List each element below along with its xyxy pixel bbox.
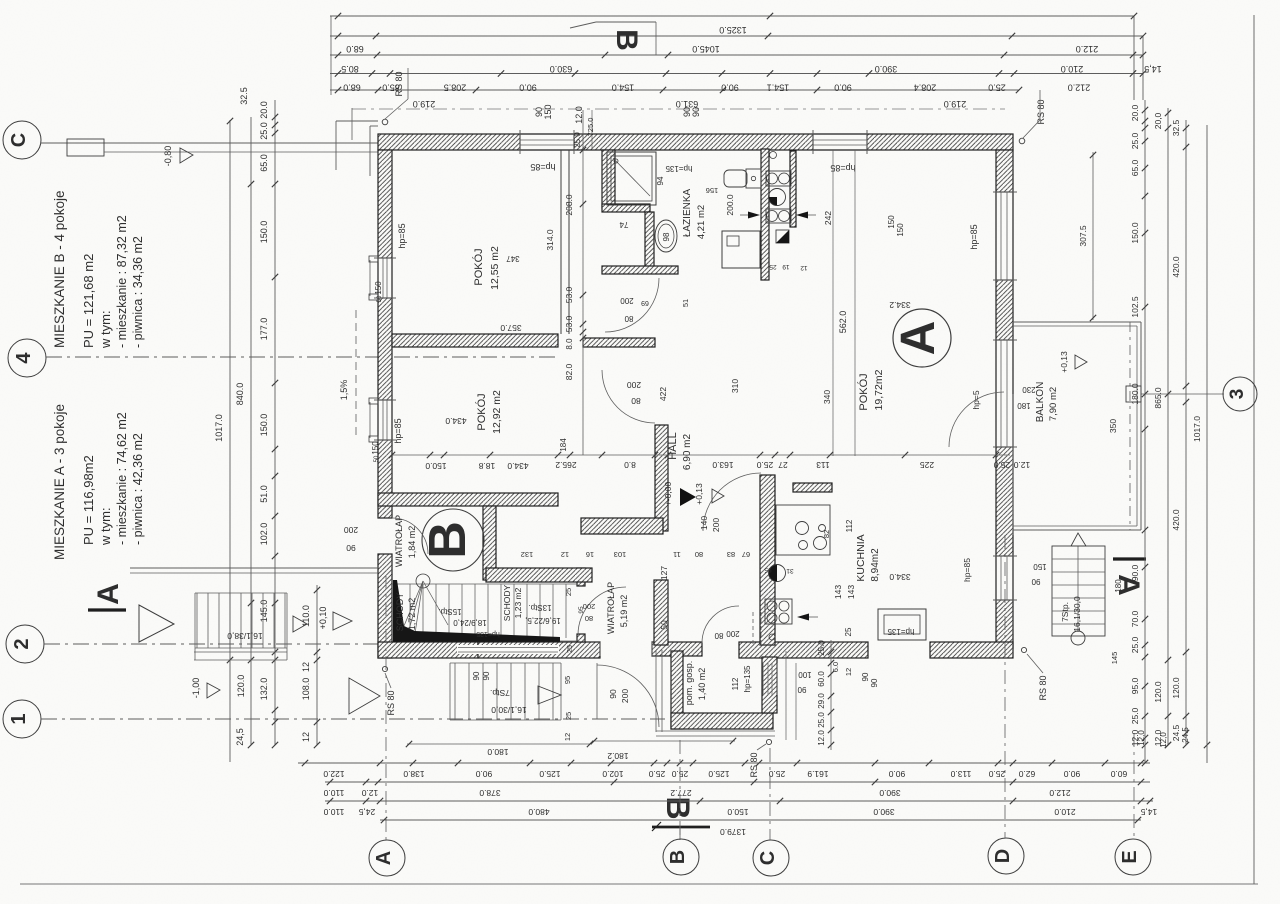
svg-text:20.0: 20.0 [259,101,269,119]
svg-text:60.0: 60.0 [1110,769,1127,779]
svg-text:120.0: 120.0 [1153,681,1163,703]
svg-text:60.0: 60.0 [817,671,826,687]
svg-text:82: 82 [822,530,831,538]
svg-text:154.1: 154.1 [767,83,790,93]
svg-text:200: 200 [711,518,721,532]
svg-text:132: 132 [521,550,534,559]
svg-text:125.0: 125.0 [708,769,730,779]
svg-text:11: 11 [673,550,681,559]
svg-text:150.0: 150.0 [1130,222,1140,244]
svg-text:100: 100 [798,670,812,679]
svg-text:4: 4 [13,352,35,364]
svg-text:POKÓJ: POKÓJ [475,393,488,430]
svg-text:143: 143 [846,585,856,599]
svg-text:154.0: 154.0 [612,83,635,93]
svg-text:83: 83 [727,550,735,559]
svg-text:150: 150 [1033,562,1047,571]
svg-text:12.0: 12.0 [361,788,378,798]
svg-text:16,1/30,0: 16,1/30,0 [1072,596,1082,632]
svg-text:143: 143 [833,585,843,599]
svg-text:hp=135: hp=135 [743,665,752,692]
svg-text:12,92 m2: 12,92 m2 [491,390,503,434]
svg-text:210.0: 210.0 [1061,64,1084,74]
svg-text:112: 112 [731,677,740,690]
svg-text:180.0: 180.0 [487,747,509,757]
svg-text:90.0: 90.0 [1130,564,1140,581]
svg-text:WIATROŁAP: WIATROŁAP [606,582,616,634]
svg-text:E: E [1119,850,1141,863]
svg-text:132.0: 132.0 [259,678,269,701]
svg-text:212.0: 212.0 [1068,83,1091,93]
svg-text:69: 69 [641,299,649,306]
svg-text:103: 103 [614,550,627,559]
svg-text:102.5: 102.5 [1130,296,1140,318]
svg-text:25.0: 25.0 [573,132,582,148]
svg-text:80: 80 [695,550,703,559]
svg-text:12: 12 [561,550,569,559]
svg-text:A: A [892,321,945,356]
svg-text:70.0: 70.0 [1130,610,1140,627]
svg-text:HALL: HALL [667,432,679,460]
svg-text:8.0: 8.0 [565,338,574,350]
svg-text:219.0: 219.0 [413,99,436,109]
svg-text:- mieszkanie : 74,62 m2: - mieszkanie : 74,62 m2 [115,412,129,545]
svg-text:12,0: 12,0 [1153,729,1163,746]
svg-text:25.0: 25.0 [993,460,1010,470]
svg-text:156: 156 [706,186,719,195]
svg-text:127: 127 [659,566,669,580]
svg-text:180: 180 [1017,401,1031,410]
svg-text:25.0: 25.0 [756,460,773,470]
svg-text:120.0: 120.0 [1171,677,1181,699]
svg-text:hp=135: hp=135 [476,630,500,637]
svg-text:1,40 m2: 1,40 m2 [697,668,707,701]
svg-text:357.0: 357.0 [500,323,522,333]
svg-text:RS 80: RS 80 [749,752,759,777]
svg-text:310: 310 [730,379,740,393]
svg-text:112: 112 [845,519,854,532]
svg-text:A: A [373,851,395,865]
svg-text:225: 225 [920,460,934,470]
svg-text:C: C [757,851,779,865]
svg-text:2: 2 [11,638,33,649]
svg-text:307.5: 307.5 [1078,225,1088,247]
svg-text:+0,13: +0,13 [694,483,704,505]
svg-text:865.0: 865.0 [1153,387,1163,409]
svg-text:180.2: 180.2 [607,751,629,761]
svg-text:90.0: 90.0 [721,83,739,93]
svg-text:25.0: 25.0 [817,712,826,728]
svg-text:90: 90 [797,685,806,694]
svg-text:80: 80 [624,314,633,323]
svg-text:12: 12 [563,733,572,741]
svg-text:177.0: 177.0 [259,318,269,341]
svg-text:90: 90 [608,689,618,699]
svg-text:hp=85: hp=85 [393,418,403,443]
svg-text:314.0: 314.0 [545,229,555,251]
svg-text:-0,80: -0,80 [163,146,173,167]
svg-text:422: 422 [658,387,668,401]
svg-text:150: 150 [896,223,905,237]
svg-text:420.0: 420.0 [1171,256,1181,278]
svg-text:8.0: 8.0 [624,460,636,470]
svg-text:+0,13: +0,13 [1059,351,1069,373]
svg-text:184: 184 [559,438,568,452]
svg-text:32.5: 32.5 [239,87,249,105]
svg-text:+0,10: +0,10 [318,607,328,630]
svg-text:434.0: 434.0 [507,461,529,471]
svg-text:hp=85: hp=85 [830,163,855,173]
svg-text:50: 50 [374,455,380,462]
svg-text:KUCHNIA: KUCHNIA [855,534,867,581]
svg-text:25: 25 [769,263,777,270]
svg-text:- mieszkanie : 87,32 m2: - mieszkanie : 87,32 m2 [115,215,129,348]
svg-text:200: 200 [583,602,596,611]
svg-text:390.0: 390.0 [879,788,901,798]
svg-text:390.0: 390.0 [873,807,895,817]
svg-text:110.0: 110.0 [323,807,344,817]
svg-text:434.0: 434.0 [445,416,467,426]
svg-text:12: 12 [301,662,311,672]
svg-text:hp=5: hp=5 [971,390,981,409]
svg-text:RS 80: RS 80 [1036,99,1046,124]
svg-text:15Stp.: 15Stp. [438,607,461,616]
svg-text:hp=85: hp=85 [530,162,555,172]
svg-text:7Stp.: 7Stp. [490,688,510,698]
svg-text:1: 1 [8,713,30,724]
svg-text:6.0: 6.0 [831,662,840,672]
svg-text:SCHODY: SCHODY [395,593,405,632]
svg-text:50: 50 [659,620,669,630]
svg-text:MIESZKANIE B - 4 pokoje: MIESZKANIE B - 4 pokoje [52,190,67,348]
svg-text:B: B [610,29,643,51]
svg-text:212.0: 212.0 [1076,44,1099,54]
svg-text:5,19 m2: 5,19 m2 [619,595,629,628]
svg-text:200: 200 [627,380,641,390]
svg-text:hp=85: hp=85 [962,558,972,582]
svg-text:50: 50 [377,295,383,302]
svg-text:1,23 m2: 1,23 m2 [513,587,523,618]
svg-text:113: 113 [816,460,830,470]
svg-text:480.0: 480.0 [528,807,550,817]
svg-text:25.0: 25.0 [988,83,1006,93]
svg-text:62.0: 62.0 [1018,769,1035,779]
svg-text:265.2: 265.2 [555,460,577,470]
svg-text:90: 90 [482,671,491,680]
svg-text:25.0: 25.0 [768,769,785,779]
svg-text:80: 80 [585,614,593,623]
svg-text:90: 90 [691,107,701,117]
svg-text:12.0: 12.0 [1013,460,1030,470]
svg-text:95: 95 [563,676,572,684]
svg-text:230: 230 [1022,385,1036,394]
svg-text:630.0: 630.0 [550,64,573,74]
svg-text:+-0,00: +-0,00 [663,482,673,507]
svg-text:1379.0: 1379.0 [720,827,746,837]
svg-text:25: 25 [567,645,574,653]
svg-text:7,90 m2: 7,90 m2 [1048,387,1059,421]
svg-text:w tym:: w tym: [98,507,113,546]
svg-text:102.0: 102.0 [259,523,269,546]
svg-text:hp=85: hp=85 [969,224,979,249]
svg-text:25.0: 25.0 [988,769,1005,779]
svg-text:18.8: 18.8 [478,461,495,471]
svg-text:138.0: 138.0 [403,769,425,779]
svg-text:67: 67 [742,550,750,559]
svg-text:12.0: 12.0 [817,730,826,746]
svg-text:347: 347 [506,254,520,263]
svg-text:90: 90 [861,672,870,681]
svg-text:13Stp.: 13Stp. [528,603,551,612]
svg-text:242: 242 [823,211,833,225]
svg-text:150.0: 150.0 [727,807,749,817]
svg-text:pom. gosp.: pom. gosp. [684,661,694,706]
svg-text:200: 200 [344,525,358,535]
svg-text:161.9: 161.9 [807,769,829,779]
svg-text:RS 80: RS 80 [386,690,396,715]
svg-text:24.5: 24.5 [1181,727,1190,743]
svg-text:16: 16 [586,550,594,559]
svg-text:20,0: 20,0 [1153,112,1163,129]
svg-text:25.0: 25.0 [817,640,826,656]
svg-text:108.0: 108.0 [301,678,311,701]
svg-text:1,5%: 1,5% [339,380,349,401]
svg-text:D: D [992,849,1014,863]
svg-text:150: 150 [887,215,896,229]
svg-text:378.0: 378.0 [479,788,501,798]
svg-text:1,72 m2: 1,72 m2 [407,598,417,631]
svg-text:80: 80 [631,396,641,406]
svg-text:200.0: 200.0 [725,194,735,216]
svg-text:25.0: 25.0 [648,769,665,779]
svg-text:212.0: 212.0 [1049,788,1071,798]
svg-text:hp=135: hp=135 [887,627,914,636]
svg-text:219.0: 219.0 [944,99,967,109]
svg-text:208.0: 208.0 [564,194,574,216]
svg-text:hp=135: hp=135 [665,164,692,173]
svg-text:14,5: 14,5 [1140,807,1157,817]
svg-text:4,21 m2: 4,21 m2 [696,205,707,239]
svg-text:68.0: 68.0 [346,44,364,54]
svg-text:ŁAZIENKA: ŁAZIENKA [682,189,693,238]
svg-text:94: 94 [656,176,665,185]
svg-text:25.0: 25.0 [1130,707,1140,724]
svg-text:29.0: 29.0 [817,693,826,709]
svg-text:163.0: 163.0 [712,460,734,470]
svg-text:PU = 116,98m2: PU = 116,98m2 [81,455,96,545]
svg-text:65.0: 65.0 [1130,159,1140,176]
svg-text:32.5: 32.5 [1171,119,1181,136]
svg-text:-1,00: -1,00 [191,678,201,699]
svg-text:90.0: 90.0 [888,769,905,779]
svg-text:68.0: 68.0 [343,83,361,93]
svg-text:150.0: 150.0 [259,221,269,244]
svg-text:53.0: 53.0 [564,315,574,332]
svg-text:WIATROŁAP: WIATROŁAP [394,515,404,567]
svg-text:562.0: 562.0 [838,311,848,334]
svg-text:1017.0: 1017.0 [1192,416,1202,442]
svg-text:19: 19 [782,263,790,270]
svg-text:145.0: 145.0 [259,600,269,623]
svg-text:RS 80: RS 80 [394,71,404,96]
svg-text:19,6/22,5,: 19,6/22,5, [525,616,561,625]
svg-text:7Stp.: 7Stp. [1060,602,1070,622]
svg-text:90: 90 [346,543,356,553]
svg-text:90.0: 90.0 [475,769,492,779]
svg-text:80: 80 [714,631,723,640]
svg-text:SCHODY: SCHODY [502,584,512,621]
svg-text:110.0: 110.0 [323,788,344,798]
svg-text:208.4: 208.4 [914,83,937,93]
svg-text:420.0: 420.0 [1171,509,1181,531]
svg-text:C: C [8,133,30,147]
svg-text:150: 150 [374,281,383,295]
svg-text:14,5: 14,5 [1144,64,1162,74]
svg-text:80.5: 80.5 [341,64,359,74]
svg-text:RS 80: RS 80 [1038,675,1048,700]
svg-text:74: 74 [619,220,628,229]
svg-text:102.0: 102.0 [602,769,624,779]
svg-text:51.0: 51.0 [259,485,269,503]
svg-text:98: 98 [662,232,671,241]
svg-text:25: 25 [844,627,853,636]
svg-text:16,1/30,0: 16,1/30,0 [491,705,527,715]
svg-text:25.0: 25.0 [259,122,269,140]
svg-text:95.0: 95.0 [1130,677,1140,694]
svg-text:31: 31 [786,567,794,574]
svg-text:25.0: 25.0 [1130,132,1140,149]
svg-text:6,90 m2: 6,90 m2 [682,433,693,470]
svg-text:334.0: 334.0 [889,572,911,582]
svg-text:340: 340 [822,390,832,404]
svg-text:200: 200 [726,629,740,638]
svg-text:350: 350 [1108,419,1118,433]
svg-text:12: 12 [301,732,311,742]
svg-text:150: 150 [371,441,380,455]
svg-text:MIESZKANIE A - 3 pokoje: MIESZKANIE A - 3 pokoje [52,404,67,560]
svg-text:90.0: 90.0 [1063,769,1080,779]
svg-text:95: 95 [764,566,772,573]
svg-text:120.0: 120.0 [236,675,246,698]
svg-text:200: 200 [620,296,634,305]
svg-text:1,84 m2: 1,84 m2 [407,526,417,559]
svg-text:53.0: 53.0 [564,286,574,303]
svg-text:w tym:: w tym: [98,310,113,349]
svg-text:334.2: 334.2 [889,300,911,310]
svg-text:- piwnica : 42,36 m2: - piwnica : 42,36 m2 [131,433,145,545]
svg-text:150.0: 150.0 [259,414,269,437]
svg-text:145: 145 [1110,652,1119,665]
svg-text:51: 51 [681,299,690,307]
svg-text:12: 12 [800,264,808,271]
svg-text:8,94m2: 8,94m2 [870,548,881,582]
svg-text:140: 140 [699,516,709,530]
svg-text:- piwnica : 34,36 m2: - piwnica : 34,36 m2 [131,236,145,348]
svg-text:B: B [667,850,689,864]
svg-text:113.0: 113.0 [950,769,971,779]
svg-text:12: 12 [844,668,853,676]
svg-text:840.0: 840.0 [235,383,245,406]
svg-text:208.5: 208.5 [444,83,467,93]
svg-text:25: 25 [564,712,573,720]
svg-text:24,5: 24,5 [358,807,375,817]
svg-text:19,72m2: 19,72m2 [873,369,885,410]
svg-text:90: 90 [472,671,481,680]
svg-text:B: B [660,796,696,819]
svg-text:390.0: 390.0 [875,64,898,74]
svg-text:12.0: 12.0 [1130,729,1140,746]
svg-text:PU = 121,68 m2: PU = 121,68 m2 [81,254,96,348]
svg-text:1325.0: 1325.0 [719,25,747,35]
svg-text:210.0: 210.0 [1054,807,1076,817]
svg-text:A: A [92,583,125,605]
svg-text:POKÓJ: POKÓJ [857,373,870,410]
svg-text:277.2: 277.2 [670,788,692,798]
svg-text:200: 200 [620,689,630,703]
svg-text:82.0: 82.0 [564,363,574,380]
svg-text:20.0: 20.0 [1130,104,1140,121]
svg-text:12,55 m2: 12,55 m2 [489,246,501,290]
svg-text:24,5: 24,5 [235,728,245,746]
svg-text:725.0: 725.0 [586,118,595,137]
svg-text:122.0: 122.0 [323,769,345,779]
svg-text:25: 25 [564,588,573,596]
svg-text:A: A [1112,574,1145,596]
svg-text:27: 27 [778,460,788,470]
svg-text:90.0: 90.0 [519,83,537,93]
svg-text:hp=85: hp=85 [397,223,407,248]
svg-text:25.0: 25.0 [1130,636,1140,653]
svg-text:150.0: 150.0 [425,461,447,471]
svg-text:90: 90 [870,678,879,687]
svg-text:90.0: 90.0 [834,83,852,93]
svg-text:125.0: 125.0 [539,769,561,779]
svg-text:1045.0: 1045.0 [692,44,720,54]
svg-text:90: 90 [1031,577,1040,586]
svg-text:18,9/24,0: 18,9/24,0 [453,618,487,627]
svg-text:16,1/38,0: 16,1/38,0 [227,631,263,641]
svg-text:65.0: 65.0 [259,154,269,172]
svg-text:24.5: 24.5 [1171,724,1181,741]
svg-text:POKÓJ: POKÓJ [472,248,485,285]
svg-text:1017.0: 1017.0 [214,414,224,442]
svg-text:150: 150 [543,104,553,119]
svg-text:3: 3 [1227,389,1248,400]
